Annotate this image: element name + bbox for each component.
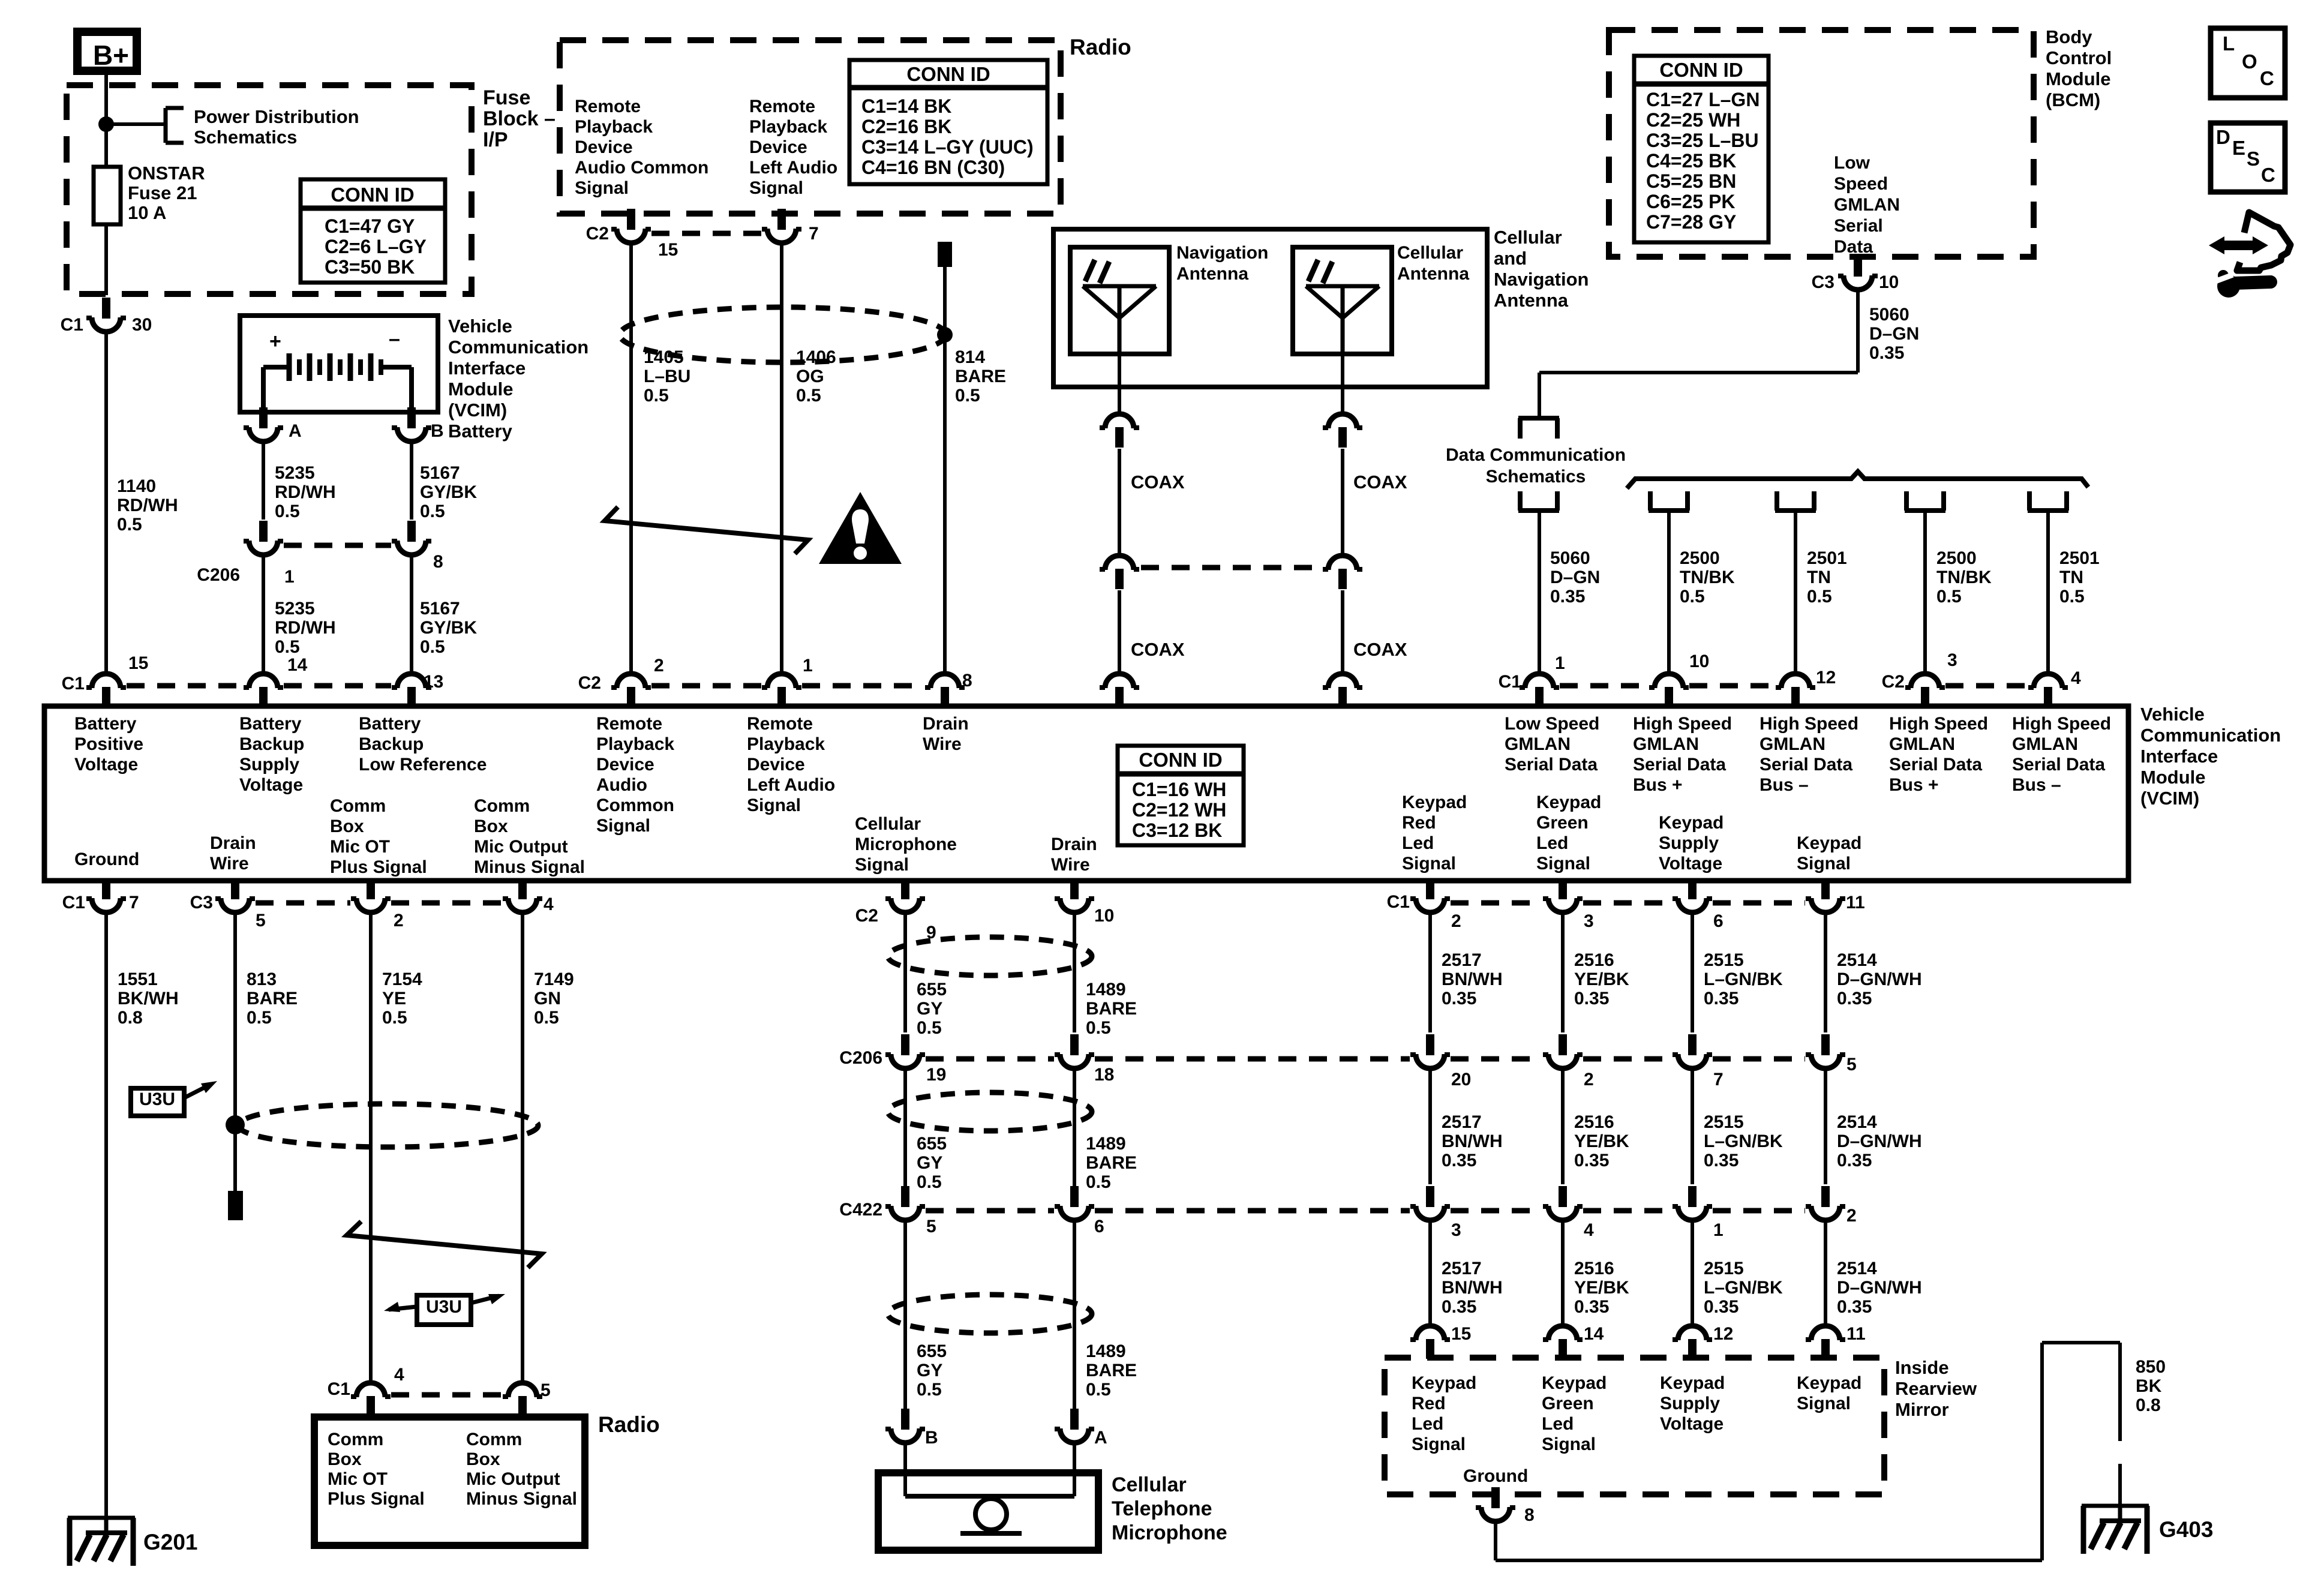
svg-text:Module: Module [448, 379, 514, 400]
svg-text:Plus Signal: Plus Signal [330, 857, 427, 877]
service icon arrow wrench [2209, 212, 2290, 298]
svg-text:2517: 2517 [1442, 950, 1482, 970]
svg-text:Cellular: Cellular [855, 814, 921, 834]
svg-text:7: 7 [809, 224, 819, 244]
svg-text:D–GN/WH: D–GN/WH [1837, 1131, 1922, 1151]
svg-text:Mic OT: Mic OT [328, 1469, 388, 1489]
svg-text:Mirror: Mirror [1895, 1399, 1949, 1420]
svg-text:0.35: 0.35 [1550, 587, 1585, 607]
label Cellular Microphone Signal [855, 814, 957, 875]
svg-text:Minus Signal: Minus Signal [466, 1489, 577, 1509]
svg-text:30: 30 [132, 315, 152, 335]
label ONSTAR Fuse 21 10 A [128, 163, 205, 223]
svg-text:3: 3 [1947, 650, 1957, 670]
svg-text:0.5: 0.5 [1086, 1172, 1111, 1192]
drain wire terminal radio [938, 242, 952, 267]
svg-text:RD/WH: RD/WH [275, 618, 336, 638]
VCIM battery box [240, 316, 438, 412]
label High Speed GMLAN Serial Data Bus plus 2 [1889, 714, 1988, 795]
connector C1 pin 7 below VCIM [62, 878, 139, 912]
svg-text:0.5: 0.5 [534, 1008, 559, 1028]
wire 2516 seg3 [1561, 1219, 1565, 1326]
label G403 [2159, 1517, 2214, 1542]
svg-text:4: 4 [1584, 1220, 1594, 1240]
svg-text:Box: Box [328, 1449, 362, 1469]
label High Speed GMLAN Serial Data Bus plus 1 [1633, 714, 1732, 795]
svg-text:1: 1 [1713, 1220, 1724, 1240]
svg-text:2501: 2501 [1807, 548, 1847, 568]
label Keypad Green Led Signal mirror [1542, 1373, 1607, 1454]
high speed wire bracket x2993 [1775, 491, 1816, 511]
label 1489 BARE 0.5 seg1 [1086, 980, 1137, 1038]
svg-text:4: 4 [394, 1365, 404, 1385]
navigation antenna symbol [1083, 260, 1156, 354]
svg-text:5167: 5167 [420, 463, 460, 483]
svg-text:High Speed: High Speed [1759, 714, 1858, 734]
connector nav coax 3 at VCIM [1100, 674, 1139, 709]
svg-text:0.5: 0.5 [1936, 587, 1962, 607]
connector mirror ground pin 8 [1476, 1487, 1535, 1525]
svg-text:Wire: Wire [1051, 855, 1090, 875]
label 1140 RD/WH 0.5 [117, 476, 178, 535]
wire 2514 seg3 [1824, 1219, 1827, 1326]
dashed link C1 keypad row [1451, 900, 1805, 906]
shield ellipse mic 3 [888, 1295, 1092, 1333]
label 655 GY 0.5 seg3 [917, 1341, 947, 1400]
svg-text:2501: 2501 [2059, 548, 2100, 568]
svg-text:3: 3 [1584, 911, 1594, 931]
connector radio pin 7 [762, 209, 819, 244]
connector battery pin A [244, 407, 302, 442]
svg-text:and: and [1494, 248, 1527, 269]
radio bottom box [314, 1417, 585, 1545]
VCIM module box [44, 706, 2128, 881]
svg-text:C2: C2 [1882, 672, 1905, 692]
svg-text:14: 14 [287, 655, 308, 675]
svg-text:Led: Led [1402, 833, 1434, 853]
svg-text:2514: 2514 [1837, 950, 1877, 970]
svg-text:Device: Device [596, 755, 654, 775]
svg-text:5060: 5060 [1869, 305, 1909, 325]
high speed wire bracket x3209 [1905, 491, 1945, 511]
svg-text:C2=12 WH: C2=12 WH [1132, 799, 1226, 821]
wire 1489 BARE seg2 [1073, 1067, 1076, 1188]
wire 2515 seg3 [1691, 1219, 1694, 1326]
break line radio pair [605, 507, 808, 554]
svg-text:5: 5 [541, 1380, 551, 1400]
wire 1140 RD/WH [104, 331, 108, 674]
svg-text:2516: 2516 [1574, 1112, 1614, 1132]
high speed wire bracket x3414 [2028, 491, 2068, 511]
ground G201 [68, 1517, 135, 1566]
svg-text:C3: C3 [1812, 272, 1834, 292]
svg-text:GY: GY [917, 1153, 942, 1173]
svg-text:11: 11 [1846, 893, 1865, 912]
svg-text:Battery: Battery [359, 714, 421, 734]
label Vehicle Communication Interface Module VCIM Battery [448, 316, 588, 442]
svg-text:Data Communication: Data Communication [1446, 445, 1626, 465]
svg-text:2: 2 [1451, 911, 1461, 931]
svg-text:Keypad: Keypad [1797, 833, 1861, 853]
wire 850 BK with break [2118, 1343, 2122, 1522]
connector cell coax 1 [1323, 414, 1362, 448]
svg-text:1: 1 [1555, 653, 1565, 673]
svg-text:(BCM): (BCM) [2046, 89, 2100, 110]
svg-text:E: E [2232, 137, 2245, 159]
svg-text:8: 8 [433, 552, 443, 572]
svg-text:Led: Led [1412, 1414, 1443, 1434]
svg-text:Left Audio: Left Audio [749, 158, 837, 178]
wire 813 BARE drain [233, 911, 237, 1191]
svg-text:Supply: Supply [1659, 833, 1719, 853]
label 850 BK 0.8 [2136, 1357, 2166, 1415]
svg-text:GMLAN: GMLAN [1633, 734, 1699, 754]
svg-text:BK: BK [2136, 1376, 2162, 1396]
svg-text:ONSTAR: ONSTAR [128, 163, 205, 184]
svg-text:U3U: U3U [426, 1297, 462, 1317]
wire 5235 RD/WH upper [262, 440, 265, 520]
connector C2 pin 3 at VCIM [1882, 650, 1957, 709]
label Keypad Supply Voltage mirror [1660, 1373, 1725, 1434]
svg-text:0.35: 0.35 [1869, 343, 1904, 363]
dashed link C3 row [256, 900, 502, 906]
label 2516 YE/BK 0.35 seg1 [1574, 950, 1629, 1008]
label G201 [143, 1530, 198, 1554]
label 2501 TN 0.5 [2059, 548, 2100, 607]
label remote playback left audio [749, 97, 837, 198]
wire 5235 RD/WH lower [262, 554, 265, 674]
svg-text:0.35: 0.35 [1704, 989, 1739, 1008]
svg-text:Signal: Signal [596, 816, 650, 836]
svg-text:10: 10 [1879, 272, 1899, 292]
label Comm Box Mic OT Plus Signal [330, 796, 427, 877]
svg-text:GY/BK: GY/BK [420, 618, 477, 638]
wire B+ to fuse [104, 75, 108, 168]
svg-text:7149: 7149 [534, 969, 574, 989]
svg-text:1489: 1489 [1086, 1341, 1126, 1361]
label 1489 BARE 0.5 seg2 [1086, 1134, 1137, 1192]
wire 2500 TN/BK [1667, 511, 1671, 674]
svg-text:Microphone: Microphone [855, 834, 957, 854]
svg-text:D–GN: D–GN [1550, 568, 1600, 587]
label 655 GY 0.5 seg2 [917, 1134, 947, 1192]
svg-text:10: 10 [1094, 906, 1114, 926]
svg-text:Battery: Battery [74, 714, 137, 734]
svg-text:Red: Red [1412, 1394, 1446, 1413]
connector C206 keypad pin 2 [1543, 1034, 1594, 1089]
svg-text:Serial Data: Serial Data [1505, 755, 1598, 775]
svg-text:High Speed: High Speed [1633, 714, 1732, 734]
svg-text:Body: Body [2046, 26, 2092, 47]
svg-text:5: 5 [926, 1217, 936, 1236]
svg-text:Keypad: Keypad [1659, 813, 1724, 833]
wire 1489 BARE seg1 [1073, 911, 1076, 1032]
connector C1 pin 1 at VCIM [1499, 653, 1565, 709]
svg-text:2516: 2516 [1574, 950, 1614, 970]
svg-text:Telephone: Telephone [1112, 1497, 1212, 1520]
svg-text:15: 15 [1451, 1324, 1471, 1344]
svg-text:13: 13 [424, 672, 443, 692]
svg-text:C2: C2 [578, 673, 601, 693]
connector C206 pin 8 [392, 521, 443, 572]
svg-text:Antenna: Antenna [1397, 264, 1469, 284]
label Navigation Antenna [1176, 243, 1268, 284]
label Comm Box Mic OT Plus Signal radio [328, 1430, 425, 1509]
svg-text:Microphone: Microphone [1112, 1521, 1227, 1544]
connector C206 pin 19 [839, 1034, 946, 1085]
svg-text:655: 655 [917, 1341, 947, 1361]
fuse block I/P dashed box [67, 85, 472, 294]
svg-text:Drain: Drain [210, 833, 256, 853]
data communication schematics bracket bottom [1518, 491, 1559, 511]
connector pin 4 at VCIM [2028, 668, 2081, 709]
svg-text:L–GN/BK: L–GN/BK [1704, 969, 1783, 989]
svg-text:CONN ID: CONN ID [331, 184, 414, 206]
svg-text:7154: 7154 [382, 969, 422, 989]
svg-text:Supply: Supply [239, 755, 299, 775]
svg-text:2515: 2515 [1704, 950, 1744, 970]
wire 7154 YE [369, 911, 373, 1383]
svg-text:2515: 2515 [1704, 1112, 1744, 1132]
wire COAX nav lower [1118, 590, 1121, 674]
svg-text:12: 12 [1713, 1324, 1733, 1344]
svg-text:Low Reference: Low Reference [359, 755, 487, 775]
svg-text:Cellular: Cellular [1494, 227, 1562, 248]
svg-text:0.5: 0.5 [275, 637, 300, 657]
wire fuse to C1 30 [104, 224, 108, 295]
svg-text:Comm: Comm [466, 1430, 522, 1449]
svg-text:0.5: 0.5 [275, 502, 300, 521]
wire 2517 seg1 [1428, 911, 1432, 1032]
svg-text:Ground: Ground [74, 849, 139, 869]
svg-text:Cellular: Cellular [1112, 1473, 1187, 1496]
svg-text:1489: 1489 [1086, 980, 1126, 999]
svg-text:Keypad: Keypad [1542, 1373, 1607, 1393]
connector pin 12 at VCIM [1776, 668, 1836, 709]
svg-text:Comm: Comm [474, 796, 530, 816]
svg-text:TN: TN [1807, 568, 1831, 587]
connector C1 pin 30 [61, 298, 152, 335]
svg-text:Fuse: Fuse [483, 86, 530, 109]
svg-text:655: 655 [917, 980, 947, 999]
svg-text:BN/WH: BN/WH [1442, 1131, 1503, 1151]
label Vehicle Communication Interface Module VCIM right [2140, 704, 2281, 809]
svg-text:10: 10 [1689, 652, 1709, 671]
svg-text:C2=25 WH: C2=25 WH [1646, 109, 1740, 131]
svg-text:C: C [2261, 164, 2275, 186]
label 2501 TN 0.5 [1807, 548, 1847, 607]
wire 2515 seg1 [1691, 911, 1694, 1032]
shield ellipse mic 2 [888, 1092, 1092, 1131]
wire 5060 D-GN from BCM [1539, 289, 1858, 418]
LOC reference box [2211, 28, 2285, 98]
svg-text:BN/WH: BN/WH [1442, 969, 1503, 989]
connector C422 keypad pin 1 [1673, 1186, 1724, 1240]
svg-text:19: 19 [926, 1065, 946, 1085]
wire COAX cell upper [1341, 449, 1344, 556]
svg-text:Communication: Communication [448, 337, 588, 358]
svg-text:GMLAN: GMLAN [1834, 195, 1900, 215]
svg-text:G201: G201 [143, 1530, 198, 1554]
svg-text:7: 7 [1713, 1070, 1724, 1089]
label 2515 L–GN/BK 0.35 seg3 [1704, 1259, 1783, 1317]
svg-text:Mic Output: Mic Output [474, 837, 568, 857]
connector radio pin 5 [503, 1380, 551, 1418]
dashed link C2 row radio [651, 683, 924, 689]
svg-text:Schematics: Schematics [194, 127, 297, 148]
connector C422 keypad pin 3 [1410, 1186, 1461, 1240]
ground G403 [2082, 1505, 2149, 1554]
label 5167 GY/BK 0.5 upper [420, 463, 477, 521]
svg-text:YE/BK: YE/BK [1574, 969, 1629, 989]
connector C3 pin 5 below VCIM [190, 878, 266, 930]
svg-text:Control: Control [2046, 47, 2112, 68]
connector mic pin A [1055, 1409, 1107, 1448]
wire cell antenna lead [1341, 354, 1344, 414]
wire branch to power distribution [106, 122, 166, 126]
svg-text:C7=28 GY: C7=28 GY [1646, 211, 1736, 233]
svg-text:C206: C206 [197, 565, 240, 585]
label 2517 BN/WH 0.35 seg2 [1442, 1112, 1503, 1170]
wire 2514 seg2 [1824, 1067, 1827, 1184]
fuse ONSTAR Fuse 21 10A [94, 167, 121, 227]
CONN ID table radio [849, 60, 1047, 184]
svg-text:Fuse 21: Fuse 21 [128, 182, 197, 203]
label COAX nav lower [1131, 639, 1185, 660]
svg-text:0.35: 0.35 [1574, 1297, 1609, 1317]
svg-text:Device: Device [747, 755, 805, 775]
svg-text:1: 1 [803, 656, 813, 676]
connector C206 keypad pin 7 [1673, 1034, 1724, 1089]
label 2515 L–GN/BK 0.35 seg2 [1704, 1112, 1783, 1170]
svg-text:2: 2 [1584, 1070, 1594, 1089]
svg-text:Voltage: Voltage [239, 775, 303, 795]
svg-text:C1=27 L–GN: C1=27 L–GN [1646, 89, 1759, 110]
svg-text:BN/WH: BN/WH [1442, 1278, 1503, 1298]
svg-text:Navigation: Navigation [1494, 269, 1589, 290]
svg-text:BARE: BARE [1086, 1153, 1137, 1173]
svg-text:15: 15 [658, 240, 678, 260]
label 2500 TN/BK 0.5 [1680, 548, 1735, 607]
svg-text:C1=47 GY: C1=47 GY [325, 215, 415, 237]
svg-text:Supply: Supply [1660, 1394, 1720, 1413]
junction node drain lower [226, 1115, 245, 1134]
svg-text:Keypad: Keypad [1797, 1373, 1861, 1393]
wire 1489 BARE seg3 [1073, 1219, 1076, 1410]
svg-text:L–BU: L–BU [644, 367, 690, 386]
svg-text:(VCIM): (VCIM) [2140, 788, 2199, 809]
svg-text:Playback: Playback [749, 117, 827, 137]
connector pin 10 below VCIM [1055, 878, 1114, 926]
svg-text:Battery: Battery [239, 714, 302, 734]
svg-text:Signal: Signal [1402, 854, 1456, 873]
shield ellipse radio pair [620, 307, 946, 362]
svg-text:Plus Signal: Plus Signal [328, 1489, 425, 1509]
svg-text:Bus +: Bus + [1889, 775, 1939, 795]
label 814 BARE 0.5 [955, 347, 1006, 406]
label 5167 GY/BK 0.5 lower [420, 599, 477, 657]
label High Speed GMLAN Serial Data Bus minus 2 [2012, 714, 2111, 795]
connector pin 11 below VCIM [1806, 878, 1865, 912]
svg-text:0.35: 0.35 [1574, 989, 1609, 1008]
svg-text:C6=25 PK: C6=25 PK [1646, 191, 1736, 212]
connector C422 pin 5 [839, 1186, 936, 1236]
svg-text:C2: C2 [586, 224, 609, 244]
svg-text:4: 4 [544, 894, 554, 914]
svg-text:Antenna: Antenna [1176, 264, 1248, 284]
label Drain Wire mic [1051, 834, 1097, 875]
svg-text:RD/WH: RD/WH [117, 496, 178, 515]
svg-text:Ground: Ground [1463, 1466, 1528, 1486]
svg-text:D–GN/WH: D–GN/WH [1837, 969, 1922, 989]
svg-text:1140: 1140 [117, 476, 156, 496]
wire nav antenna lead [1118, 354, 1121, 414]
svg-text:Signal: Signal [575, 178, 629, 198]
svg-text:C1: C1 [1387, 892, 1410, 912]
wire 1551 BK/WH to G201 [104, 911, 108, 1535]
svg-text:COAX: COAX [1131, 472, 1185, 493]
svg-text:2: 2 [1846, 1206, 1857, 1226]
label 7154 YE 0.5 [382, 969, 422, 1028]
label Comm Box Mic Output Minus Signal [474, 796, 585, 877]
shield ellipse comm pair [238, 1104, 538, 1147]
svg-text:C: C [2260, 67, 2274, 89]
svg-text:Playback: Playback [575, 117, 653, 137]
svg-text:Serial Data: Serial Data [1633, 755, 1726, 775]
svg-text:Communication: Communication [2140, 725, 2281, 746]
connector mic pin B [885, 1409, 938, 1448]
svg-text:Signal: Signal [1542, 1434, 1596, 1454]
svg-text:Mic OT: Mic OT [330, 837, 390, 857]
svg-text:0.35: 0.35 [1837, 1151, 1872, 1170]
svg-text:BARE: BARE [955, 367, 1006, 386]
wire 655 GY seg2 [903, 1067, 907, 1188]
svg-text:Voltage: Voltage [1659, 854, 1722, 873]
svg-text:Box: Box [474, 816, 508, 836]
svg-text:O: O [2242, 50, 2257, 73]
svg-text:Signal: Signal [1412, 1434, 1466, 1454]
svg-text:Box: Box [466, 1449, 500, 1469]
connector mirror pin 11 [1806, 1324, 1866, 1359]
svg-text:Vehicle: Vehicle [448, 316, 512, 337]
svg-text:10 A: 10 A [128, 202, 166, 223]
svg-text:BARE: BARE [247, 989, 298, 1008]
svg-text:L: L [2223, 32, 2235, 55]
svg-text:8: 8 [962, 671, 972, 691]
svg-text:Green: Green [1536, 813, 1589, 833]
dashed link C2 row right [1945, 683, 2028, 689]
label Cellular Telephone Microphone [1112, 1473, 1227, 1544]
label 2514 D–GN/WH 0.35 seg2 [1837, 1112, 1922, 1170]
svg-text:5235: 5235 [275, 463, 315, 483]
CONN ID table BCM [1634, 56, 1768, 242]
svg-text:Data: Data [1834, 237, 1873, 257]
label Radio top [1070, 35, 1131, 59]
label 2514 D–GN/WH 0.35 seg3 [1837, 1259, 1922, 1317]
label Keypad Red Led Signal VCIM [1402, 792, 1467, 873]
svg-text:COAX: COAX [1353, 639, 1407, 660]
svg-text:C1: C1 [61, 315, 83, 335]
svg-text:Antenna: Antenna [1494, 290, 1569, 311]
label Ground [74, 849, 139, 869]
svg-text:OG: OG [796, 367, 824, 386]
label Remote Playback Device Audio Common Signal VCIM [596, 714, 674, 836]
svg-text:BARE: BARE [1086, 1361, 1137, 1380]
svg-text:Low Speed: Low Speed [1505, 714, 1599, 734]
connector pin 6 below VCIM [1673, 878, 1724, 931]
svg-text:0.5: 0.5 [247, 1008, 272, 1028]
svg-text:Keypad: Keypad [1536, 792, 1601, 812]
